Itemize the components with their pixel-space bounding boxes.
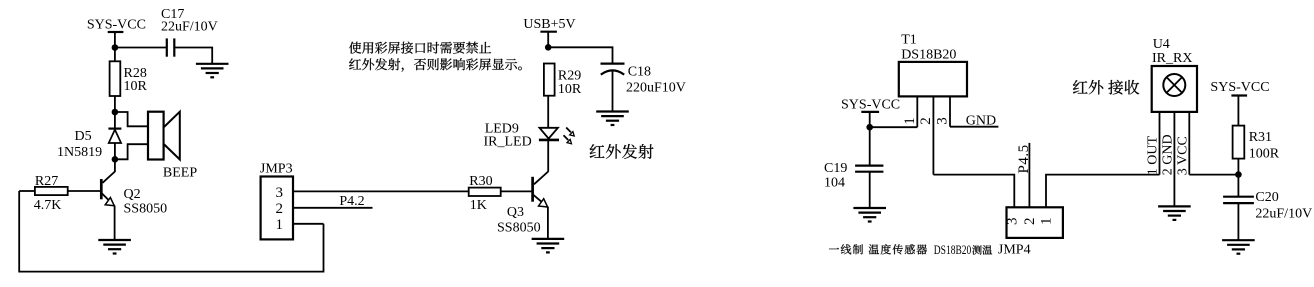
caption 测温 — [972, 245, 992, 254]
caption 一线制 温度传感器 — [829, 244, 927, 254]
wire R29 to LED — [547, 96, 549, 128]
wire node to C19 — [869, 127, 871, 165]
svg-text:1 OUT: 1 OUT — [1146, 135, 1161, 175]
svg-text:SYS-VCC: SYS-VCC — [1210, 80, 1269, 95]
ground (Q2) — [98, 240, 131, 254]
ground (C17) — [196, 64, 229, 78]
wire collector stub Q3 — [534, 171, 548, 184]
node junction dot (D5 top) — [112, 109, 119, 116]
svg-text:1: 1 — [1039, 218, 1055, 226]
wire T1 pin2 to JMP4 pin3 — [933, 175, 1014, 208]
wire JMP3 pin1 — [293, 223, 324, 225]
svg-text:SYS-VCC: SYS-VCC — [87, 18, 146, 33]
svg-text:SS8050: SS8050 — [124, 202, 168, 217]
wire USB+5V to node — [547, 32, 549, 48]
wire SYS-VCC to R31 — [1237, 96, 1239, 126]
svg-text:2: 2 — [1022, 218, 1038, 226]
svg-text:T1: T1 — [901, 33, 917, 48]
capacitor C19 — [824, 161, 883, 190]
capacitor C20 — [1223, 190, 1312, 222]
svg-text:JMP3: JMP3 — [260, 162, 293, 177]
svg-text:P4.5: P4.5 — [1016, 144, 1032, 173]
svg-text:10R: 10R — [124, 79, 148, 94]
wire bottom to speaker — [115, 144, 148, 159]
connector JMP3 — [260, 162, 293, 240]
svg-text:JMP4: JMP4 — [998, 243, 1031, 258]
svg-text:Q2: Q2 — [124, 187, 141, 202]
svg-text:R27: R27 — [35, 174, 58, 189]
svg-text:1K: 1K — [470, 198, 487, 213]
svg-text:C19: C19 — [824, 161, 847, 176]
resistor R29 — [544, 64, 582, 98]
label 红外 接收 — [1073, 80, 1139, 95]
svg-text:1: 1 — [276, 217, 284, 233]
svg-text:SS8050: SS8050 — [497, 221, 541, 236]
wire feedback loop R27 to JMP3 pin1 — [19, 191, 323, 272]
wire U4 VCC to node — [1189, 174, 1238, 176]
wire C20 to ground — [1237, 203, 1239, 240]
svg-text:IR_LED: IR_LED — [484, 135, 532, 150]
wire JMP4 pin1 to U4 OUT — [1046, 175, 1160, 208]
wire SYS-VCC down — [869, 112, 871, 127]
LED emission arrow 1 — [566, 128, 574, 137]
wire node to R28 — [114, 48, 116, 62]
resistor R30 — [469, 174, 501, 213]
component U4 IR_RX — [1152, 37, 1197, 112]
note text line1 — [349, 42, 491, 54]
svg-text:10R: 10R — [558, 82, 582, 97]
net label 红外发射 — [590, 144, 654, 159]
LED LED9 — [484, 121, 560, 171]
svg-text:3: 3 — [276, 185, 284, 201]
svg-text:3 VCC: 3 VCC — [1175, 136, 1190, 175]
LED emission arrow 2 — [564, 135, 572, 144]
svg-text:BEEP: BEEP — [163, 166, 197, 181]
pin 2 GND U4 — [1161, 112, 1176, 206]
wire JMP3 pin2 net P4.2 — [293, 207, 373, 209]
wire top to speaker — [115, 112, 148, 126]
svg-text:DS18B20: DS18B20 — [934, 243, 972, 257]
node junction dot (D5 bottom) — [112, 156, 119, 163]
pin 2 T1 — [918, 96, 934, 174]
net label GND wire — [950, 126, 998, 128]
wire R30 to Q3 base — [501, 190, 533, 192]
speaker BEEP — [148, 112, 197, 181]
svg-text:22uF/10V: 22uF/10V — [161, 19, 218, 34]
diode D5 — [57, 112, 121, 160]
transistor Q2 — [101, 179, 167, 217]
power flag SYS-VCC (left) — [87, 18, 146, 33]
capacitor C18 (polarized) — [601, 64, 686, 112]
pin 3 VCC U4 — [1175, 112, 1190, 175]
svg-text:1N5819: 1N5819 — [57, 145, 102, 160]
svg-text:C20: C20 — [1255, 190, 1278, 205]
ground (C19) — [853, 208, 886, 222]
capacitor C17 — [161, 7, 218, 57]
svg-text:IR_RX: IR_RX — [1152, 51, 1192, 66]
svg-text:104: 104 — [824, 175, 845, 190]
svg-text:DS18B20: DS18B20 — [901, 47, 956, 62]
svg-text:1: 1 — [902, 117, 918, 125]
svg-text:4.7K: 4.7K — [34, 198, 62, 213]
wire R31 to node — [1237, 159, 1239, 196]
wire Q2 emitter to ground — [114, 206, 116, 241]
ground (U4) — [1158, 206, 1191, 220]
node junction dot — [866, 124, 873, 131]
node junction dot — [1235, 171, 1242, 178]
svg-text:220uF10V: 220uF10V — [626, 81, 686, 96]
svg-text:2: 2 — [918, 117, 934, 125]
wire Q3 emitter to ground — [547, 207, 549, 239]
power flag SYS-VCC (T1) — [841, 97, 900, 112]
svg-text:22uF/10V: 22uF/10V — [1255, 207, 1312, 222]
svg-text:USB+5V: USB+5V — [523, 17, 575, 32]
svg-text:2: 2 — [276, 201, 284, 217]
wire node to C18 — [548, 47, 612, 63]
wire C17 to ground — [174, 48, 212, 64]
svg-text:R31: R31 — [1249, 130, 1272, 145]
component T1 DS18B20 — [899, 33, 967, 97]
ground (Q3) — [532, 239, 565, 253]
pin 1 T1 — [902, 96, 918, 127]
pin 1 OUT U4 — [1146, 112, 1161, 175]
power flag USB+5V — [523, 17, 575, 32]
svg-text:GND: GND — [966, 113, 996, 128]
node junction dot — [112, 44, 119, 51]
svg-text:D5: D5 — [75, 129, 92, 144]
svg-text:3: 3 — [935, 117, 951, 125]
connector JMP4 — [998, 207, 1063, 257]
ground (C18) — [596, 112, 629, 126]
svg-text:U4: U4 — [1153, 37, 1170, 52]
wire node to T1 pin1 — [870, 126, 918, 128]
wire SYS-VCC to node — [114, 32, 116, 48]
svg-text:C18: C18 — [628, 65, 651, 80]
ground (C20) — [1222, 240, 1255, 254]
svg-text:3: 3 — [1005, 218, 1021, 226]
svg-text:R30: R30 — [469, 174, 492, 189]
wire R27 left lead — [19, 190, 35, 192]
net stub P4.5 — [1028, 143, 1030, 207]
svg-text:100R: 100R — [1249, 147, 1280, 162]
node junction dot — [545, 44, 552, 51]
svg-text:Q3: Q3 — [507, 205, 524, 220]
wire collector stub Q2 — [103, 159, 115, 183]
wire R27 right lead to Q2 base — [68, 190, 102, 192]
pin 3 T1 — [935, 96, 951, 126]
resistor R27 — [34, 174, 68, 213]
wire JMP3 pin3 to R30 — [293, 190, 469, 192]
svg-text:2 GND: 2 GND — [1161, 134, 1176, 175]
resistor R28 — [110, 61, 148, 96]
wire R28 to node — [114, 96, 116, 112]
transistor Q3 — [497, 177, 548, 236]
resistor R31 — [1233, 126, 1280, 162]
power flag SYS-VCC (right) — [1210, 80, 1269, 96]
svg-text:P4.2: P4.2 — [339, 194, 364, 209]
wire C19 to ground — [869, 172, 871, 208]
wire node to C17 — [115, 47, 167, 49]
note text line2 — [349, 58, 522, 71]
svg-text:SYS-VCC: SYS-VCC — [841, 97, 900, 112]
